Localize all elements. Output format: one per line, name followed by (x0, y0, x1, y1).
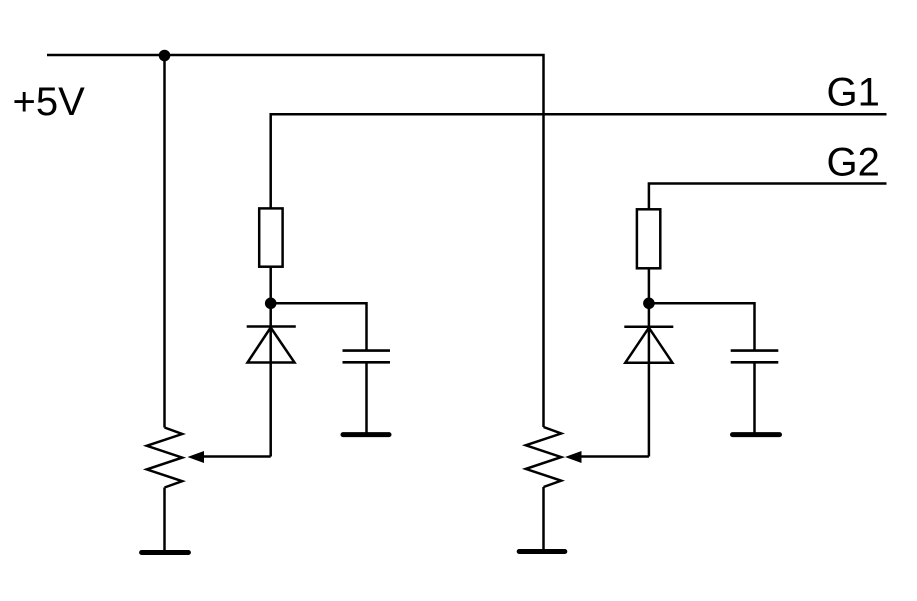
node junction right (resistor/diode/cap) (643, 298, 655, 310)
diode left (247, 327, 296, 363)
wire left wiper horizontal (202, 455, 271, 458)
svg-text:G2: G2 (827, 140, 880, 184)
wire right potentiometer to ground (542, 487, 545, 551)
wire left diode branch (junction down to wiper wire) (269, 303, 272, 456)
ground left capacitor (343, 432, 389, 437)
svg-text:+5V: +5V (13, 80, 86, 124)
node junction on +5V rail (159, 50, 171, 62)
arrow right wiper (567, 452, 582, 463)
wire left potentiometer to ground (163, 488, 166, 553)
wire left junction to capacitor (271, 303, 367, 350)
diode right (624, 327, 673, 363)
ground right potentiometer (519, 549, 565, 554)
ground right capacitor (733, 432, 780, 437)
node junction left (resistor/diode/cap) (265, 298, 277, 310)
power label +5V (13, 80, 86, 124)
capacitor left (343, 351, 391, 363)
wire right wiper horizontal (580, 455, 649, 458)
ground left potentiometer (142, 550, 189, 555)
potentiometer right (526, 427, 561, 487)
svg-text:G1: G1 (827, 71, 880, 115)
arrow left wiper (189, 452, 204, 463)
net label G2 (827, 140, 880, 184)
resistor left (259, 208, 282, 266)
wire right diode branch (junction down to wiper wire) (648, 303, 651, 456)
wire +5V rail down to left potentiometer (163, 55, 166, 428)
wire +5V top rail (47, 55, 544, 427)
wire right capacitor to ground (753, 362, 756, 433)
wire right junction to capacitor (649, 303, 755, 350)
potentiometer left (147, 428, 182, 488)
wire net G2 (649, 184, 887, 304)
net label G1 (827, 71, 880, 115)
wire left capacitor to ground (365, 362, 368, 433)
wire net G1 (271, 114, 887, 303)
capacitor right (731, 351, 779, 363)
resistor right (637, 209, 660, 268)
